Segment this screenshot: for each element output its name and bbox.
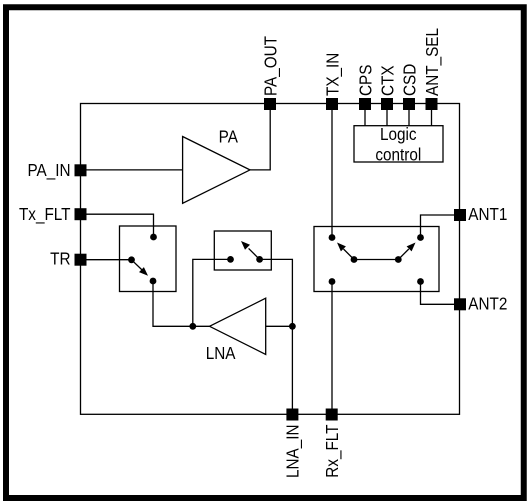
svg-text:PA_IN: PA_IN (27, 160, 70, 180)
pin ANT1 (454, 209, 466, 221)
svg-text:CTX: CTX (377, 65, 397, 96)
junction SW3 contact ANT2 (417, 278, 424, 285)
junction SW1 contact Tx (150, 234, 157, 241)
junction SW3 contact TX (329, 234, 336, 241)
svg-text:CPS: CPS (355, 65, 375, 96)
junction SW1 contact Rx (150, 278, 157, 285)
amplifier LNA (210, 298, 266, 354)
svg-text:PA: PA (219, 126, 239, 146)
switch SW2 bypass switch box (214, 231, 271, 270)
switch arm SW2 (249, 248, 260, 259)
wire TR pin to switch SW1 pole (81, 259, 132, 261)
pin CTX (381, 98, 393, 110)
wire Tx_FLT pin to switch SW1 (81, 214, 154, 237)
junction SW1 pole (128, 256, 135, 263)
svg-text:Logic: Logic (380, 124, 417, 144)
amplifier PA (183, 137, 250, 204)
svg-text:control: control (375, 144, 421, 164)
svg-text:CSD: CSD (399, 64, 419, 96)
switch arm SW3 left (344, 249, 355, 260)
svg-text:Rx_FLT: Rx_FLT (322, 425, 342, 478)
wire CTX stub (386, 104, 388, 126)
junction SW2 right contact (256, 256, 263, 263)
pin TX_IN (326, 98, 338, 110)
switch SW1 TR switch box (120, 226, 177, 292)
svg-text:PA_OUT: PA_OUT (260, 36, 280, 96)
wire ANT_SEL stub (431, 104, 433, 126)
svg-text:LNA: LNA (206, 343, 237, 363)
svg-text:TR: TR (50, 248, 70, 268)
pin CSD (403, 98, 415, 110)
switch SW3 antenna switch box (314, 227, 439, 292)
wire SW2 right to LNA input node (260, 259, 293, 326)
junction LNA output node (189, 323, 196, 330)
svg-text:ANT_SEL: ANT_SEL (422, 28, 442, 96)
wire SW3 to ANT1 pin (421, 215, 455, 238)
pin Tx_FLT (75, 208, 87, 220)
junction SW2 left contact (227, 256, 234, 263)
svg-text:Tx_FLT: Tx_FLT (19, 204, 71, 224)
wire LNA input (266, 325, 293, 327)
junction SW3 pole right (395, 256, 402, 263)
svg-text:LNA_IN: LNA_IN (282, 425, 302, 479)
pin ANT2 (454, 298, 466, 310)
svg-text:ANT2: ANT2 (468, 293, 507, 313)
pin PA_OUT (264, 98, 276, 110)
wire PA_IN pin to PA input (81, 169, 183, 171)
switch arm SW1 (132, 260, 143, 271)
pin CPS (359, 98, 371, 110)
wire SW3 to ANT2 pin (421, 282, 455, 305)
wire TX_IN pin down to switch SW3 (331, 104, 333, 238)
junction SW3 contact RX (329, 278, 336, 285)
switch arm SW3 right (398, 249, 409, 260)
wire SW2 left to LNA output node (193, 259, 231, 326)
wire SW1 contact to LNA output (153, 281, 210, 326)
wire Rx_FLT pin up to switch SW3 (331, 282, 333, 415)
wire PA output to PA_OUT pin (250, 104, 270, 170)
junction SW3 pole left (351, 256, 358, 263)
pin LNA_IN (286, 409, 298, 421)
IC boundary rectangle (81, 104, 460, 415)
pin TR (75, 254, 87, 266)
svg-text:TX_IN: TX_IN (322, 53, 342, 96)
junction SW3 contact ANT1 (417, 234, 424, 241)
wire CSD stub (408, 104, 410, 126)
pin ANT_SEL (426, 98, 438, 110)
junction LNA input node (289, 323, 296, 330)
pin Rx_FLT (326, 409, 338, 421)
svg-text:ANT1: ANT1 (468, 204, 507, 224)
wire SW3 pole bar (354, 259, 398, 261)
wire LNA input node to LNA_IN pin (291, 326, 293, 414)
logic control block (354, 126, 443, 162)
pin PA_IN (75, 164, 87, 176)
wire CPS stub (364, 104, 366, 126)
